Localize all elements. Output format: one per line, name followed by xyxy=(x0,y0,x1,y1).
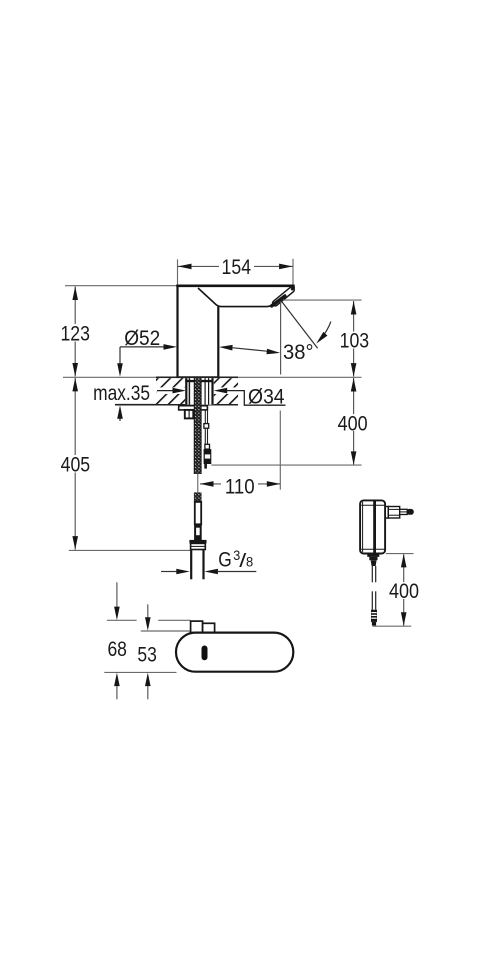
countertop deck bottom line xyxy=(115,404,238,406)
power cable upper xyxy=(371,566,373,582)
svg-text:8: 8 xyxy=(246,554,253,570)
countertop hatching right xyxy=(213,378,238,404)
bottom view sensor window xyxy=(202,646,208,661)
dim 400 right of faucet xyxy=(353,378,355,465)
svg-text:400: 400 xyxy=(338,411,368,435)
faucet body: top surface xyxy=(176,284,294,287)
dim 154 line xyxy=(178,265,220,267)
38 degree vertical reference line xyxy=(280,302,282,375)
countertop deck top line xyxy=(63,376,362,378)
bottom view extension 53 level xyxy=(141,630,191,632)
power supply seam bar xyxy=(373,500,376,554)
dim Ø52 leader and arrow xyxy=(120,346,165,348)
faucet body: left edge xyxy=(176,285,178,377)
spout outlet face xyxy=(275,290,291,304)
svg-text:Ø34: Ø34 xyxy=(248,384,285,408)
svg-text:Ø52: Ø52 xyxy=(124,326,160,350)
bottom view extension bottom level xyxy=(104,671,176,673)
power supply body xyxy=(360,500,385,553)
shank through deck xyxy=(185,378,214,405)
svg-text:154: 154 xyxy=(222,255,252,279)
dim 405 line xyxy=(74,378,76,550)
svg-text:123: 123 xyxy=(60,321,90,345)
110 reference line below deck xyxy=(279,411,281,490)
svg-text:G: G xyxy=(218,548,232,572)
svg-text:110: 110 xyxy=(225,475,255,499)
dim text 405 xyxy=(58,455,93,473)
svg-text:max.35: max.35 xyxy=(93,381,150,405)
dim Ø34 left arrow xyxy=(157,390,174,392)
dim 400 cable extension bottom xyxy=(373,625,412,627)
faucet top extension line to left dim xyxy=(65,285,178,287)
faucet base line xyxy=(176,376,219,378)
sensor cable collar xyxy=(204,424,209,429)
svg-text:103: 103 xyxy=(340,329,370,353)
dim 154 extension line right xyxy=(292,259,294,289)
dim 123 line xyxy=(74,287,76,377)
spout tip xyxy=(290,285,295,291)
power cable lower xyxy=(371,591,373,609)
mounting washer xyxy=(179,406,208,410)
hatch halo for Ø34 arrows xyxy=(156,387,186,394)
spout outlet extension line xyxy=(283,299,362,301)
svg-text:405: 405 xyxy=(61,452,91,476)
dim G3/8 arrows xyxy=(161,571,177,573)
sensor cable connector xyxy=(205,444,210,449)
bottom view mounting blocks xyxy=(191,621,203,633)
countertop hatching left xyxy=(156,378,186,404)
hose G3/8 flange xyxy=(189,540,206,544)
mounting nut xyxy=(185,410,194,419)
power supply plug base xyxy=(385,507,388,519)
dim 103 line xyxy=(353,301,355,377)
38 degree arc arrow xyxy=(320,322,331,340)
hose-end reference line xyxy=(69,549,190,551)
hose break line xyxy=(197,474,199,492)
dim 154 extension line left xyxy=(177,259,179,284)
svg-text:68: 68 xyxy=(107,637,127,661)
dim 53 arrows xyxy=(147,604,149,618)
38 degree slope line xyxy=(282,301,318,348)
svg-text:400: 400 xyxy=(389,579,419,603)
hose connector block xyxy=(194,524,202,540)
hose end tube xyxy=(195,502,201,524)
dim 400 cable line xyxy=(403,554,405,625)
power supply strain relief xyxy=(367,553,379,557)
supply hose braid upper xyxy=(194,378,202,474)
dim text 123 xyxy=(58,324,93,342)
dim max.35 top arrow xyxy=(119,347,121,365)
G3/8 threaded end tube xyxy=(190,550,192,580)
svg-text:53: 53 xyxy=(137,642,157,666)
cable-end reference line xyxy=(211,464,361,466)
faucet column right edge xyxy=(217,306,219,377)
dim 68 arrows xyxy=(116,582,118,607)
dim text 400 xyxy=(336,414,371,431)
dim 110 line xyxy=(200,483,221,485)
power supply pin xyxy=(400,509,408,514)
power cable connector xyxy=(371,610,377,622)
spout width arrows xyxy=(219,344,233,350)
svg-text:38°: 38° xyxy=(283,340,314,364)
faucet head underside xyxy=(198,288,272,307)
bottom view extension 68 level xyxy=(107,619,137,621)
bottom view faucet outline xyxy=(176,633,293,672)
dim max.35 bottom arrow xyxy=(119,419,121,422)
sensor cable below deck xyxy=(204,410,206,444)
supply hose braid lower xyxy=(194,492,202,502)
dim Ø34 right arrow and leader xyxy=(214,388,228,394)
dim text 103 xyxy=(337,332,372,349)
dim 400 cable extension top xyxy=(386,553,414,555)
dim text 400 cable xyxy=(388,582,421,599)
shank o-ring band xyxy=(185,380,213,382)
